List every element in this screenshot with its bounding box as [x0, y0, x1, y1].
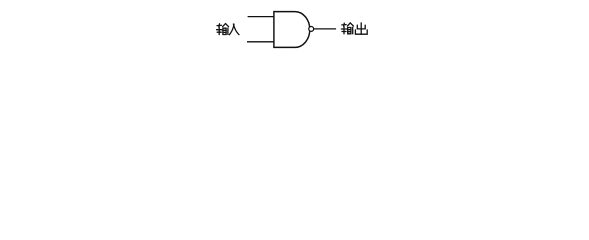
char chu (output) — [355, 23, 367, 34]
char ru (input) — [229, 24, 239, 35]
node 输入 (input label) — [217, 24, 239, 35]
node 输出 (output label) — [341, 23, 367, 34]
NAND gate U1 body — [274, 12, 310, 48]
char shu (output) — [341, 23, 353, 34]
wire input B (bottom) — [247, 41, 274, 43]
wire input A (top) — [248, 16, 275, 18]
inversion bubble — [309, 26, 314, 31]
char shu (input) — [217, 24, 229, 35]
wire output — [314, 28, 336, 30]
